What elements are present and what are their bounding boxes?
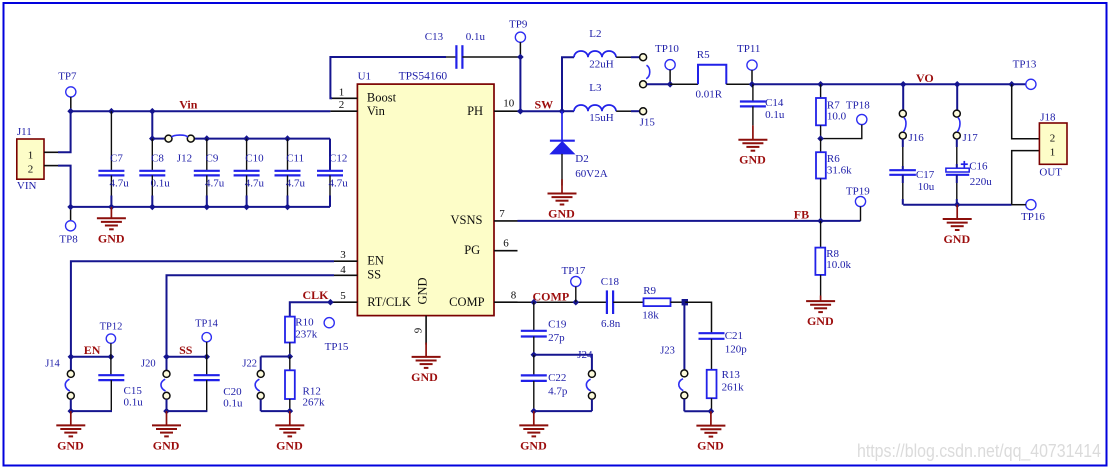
svg-text:15uH: 15uH xyxy=(589,112,614,124)
wire J23 bottom to R13 bottom xyxy=(684,410,711,412)
svg-text:60V2A: 60V2A xyxy=(575,168,607,180)
J11 pin 2 xyxy=(44,165,58,167)
jumper J14 xyxy=(45,357,74,411)
svg-text:4.7u: 4.7u xyxy=(329,177,349,189)
U1 pin 1 Boost xyxy=(330,87,357,99)
svg-text:J23: J23 xyxy=(660,346,675,357)
junction TP10 xyxy=(667,81,674,88)
svg-text:R13: R13 xyxy=(722,369,741,381)
wire R9 junction to J23 xyxy=(683,302,685,370)
jumper J15 xyxy=(640,108,656,129)
junction COMP TP17 xyxy=(573,299,580,306)
ground U1 pin 9 xyxy=(411,343,440,384)
svg-text:1: 1 xyxy=(1050,146,1056,158)
net label CLK xyxy=(303,288,330,302)
svg-text:C9: C9 xyxy=(206,152,219,164)
test point TP18 xyxy=(821,99,871,138)
junction bottom rail TP8 xyxy=(67,204,74,211)
svg-text:VSNS: VSNS xyxy=(451,213,483,227)
junction C19-C22 xyxy=(531,352,538,359)
U1 pin 5 RT/CLK xyxy=(330,290,357,302)
net label Vin xyxy=(179,97,198,111)
test point TP7 xyxy=(58,71,77,111)
svg-text:TP11: TP11 xyxy=(737,43,760,55)
wire J18 pin1 to ground rail xyxy=(1012,151,1040,205)
jumper J12 xyxy=(165,135,194,164)
wire CLK to R10 xyxy=(290,302,331,316)
svg-text:22uH: 22uH xyxy=(589,58,614,70)
svg-text:C18: C18 xyxy=(601,276,620,288)
svg-text:TP10: TP10 xyxy=(655,43,679,55)
jumper J17 xyxy=(953,84,978,144)
net label SW xyxy=(535,98,554,112)
capacitor C18 6.8n xyxy=(601,276,644,330)
svg-text:C16: C16 xyxy=(969,161,988,173)
svg-text:4.7u: 4.7u xyxy=(205,177,225,189)
svg-text:1: 1 xyxy=(339,87,345,99)
U1 pin 4 SS xyxy=(334,264,357,276)
svg-text:10u: 10u xyxy=(918,181,935,193)
resistor R10 237k xyxy=(285,317,318,357)
wire bottom input rail xyxy=(71,206,330,208)
junction SS bottom xyxy=(163,408,170,415)
svg-text:TP18: TP18 xyxy=(846,99,870,111)
svg-text:0.1u: 0.1u xyxy=(124,396,144,408)
svg-text:6: 6 xyxy=(503,238,509,250)
wire PH to SW node xyxy=(518,110,563,112)
U1 pin names xyxy=(367,91,485,310)
junction Vin rail at TP7 xyxy=(67,108,74,115)
svg-text:7: 7 xyxy=(499,208,505,220)
capacitor C9 xyxy=(194,139,225,207)
svg-text:0.1u: 0.1u xyxy=(466,31,486,43)
svg-text:27p: 27p xyxy=(548,332,565,344)
junction R10-R12 xyxy=(287,353,294,360)
junction R7-R6 xyxy=(817,135,824,142)
wire output ground rail xyxy=(903,204,1012,206)
capacitor C22 4.7p xyxy=(521,355,568,411)
junction J12 row C10 xyxy=(243,135,250,142)
svg-text:J16: J16 xyxy=(909,132,925,144)
connector J18 xyxy=(1039,111,1067,178)
resistor R8 10.0k xyxy=(815,221,851,296)
op-amp U1 TPS54160 body xyxy=(357,70,494,315)
junction R9 output xyxy=(682,299,688,305)
ground C14 xyxy=(738,125,767,166)
svg-text:PG: PG xyxy=(464,243,480,257)
junction R12 bottom xyxy=(287,408,294,415)
resistor R7 10.0 xyxy=(816,84,847,138)
capacitor C13 xyxy=(425,31,521,69)
svg-text:TP19: TP19 xyxy=(846,185,870,197)
U1 pin 3 EN xyxy=(334,249,357,261)
svg-text:261k: 261k xyxy=(722,382,745,394)
svg-text:C19: C19 xyxy=(548,319,567,331)
svg-text:TPS54160: TPS54160 xyxy=(399,70,448,82)
svg-text:GND: GND xyxy=(520,438,547,452)
capacitor C10 xyxy=(234,139,265,207)
junction bottom rail C7-GND xyxy=(108,204,115,211)
wire J11 pin1 to Vin rail xyxy=(58,111,71,152)
test point TP16 xyxy=(1012,200,1046,223)
svg-text:SS: SS xyxy=(367,267,381,281)
svg-text:C14: C14 xyxy=(765,97,784,109)
jumper after L2 xyxy=(640,54,650,88)
svg-text:GND: GND xyxy=(416,277,430,304)
svg-text:267k: 267k xyxy=(303,396,326,408)
test point TP12 xyxy=(100,322,123,357)
svg-text:TP8: TP8 xyxy=(59,233,78,245)
wire jumper to TP10 xyxy=(647,83,671,85)
svg-text:FB: FB xyxy=(794,207,809,221)
svg-text:J11: J11 xyxy=(17,126,32,138)
svg-text:GND: GND xyxy=(943,232,970,246)
svg-text:C13: C13 xyxy=(425,31,444,43)
test point TP8 xyxy=(59,207,78,245)
svg-text:6.8n: 6.8n xyxy=(601,318,621,330)
svg-text:J17: J17 xyxy=(963,132,979,144)
ground input rail xyxy=(97,207,126,245)
svg-text:EN: EN xyxy=(367,254,384,268)
wire VSNS to FB xyxy=(518,220,861,222)
svg-text:Vin: Vin xyxy=(179,97,198,111)
svg-text:R5: R5 xyxy=(697,49,710,61)
junction EN bottom xyxy=(68,408,75,415)
svg-text:C10: C10 xyxy=(245,152,264,164)
wire TP9 down to PH xyxy=(519,57,521,111)
wire R5 to TP11 xyxy=(726,83,752,85)
capacitor C16 220u polarized xyxy=(946,139,992,205)
resistor R9 18k xyxy=(642,285,685,321)
svg-text:GND: GND xyxy=(153,438,180,452)
resistor R5 0.01R shunt xyxy=(696,49,727,101)
net label VO xyxy=(916,71,934,85)
svg-text:GND: GND xyxy=(276,438,303,452)
junction SW at TP9 column xyxy=(517,108,524,115)
junction VO at J18 branch xyxy=(1008,81,1015,88)
jumper J20 xyxy=(141,357,170,411)
svg-text:L2: L2 xyxy=(589,28,601,40)
capacitor C14 xyxy=(740,84,785,125)
svg-text:9: 9 xyxy=(413,327,425,333)
svg-text:J12: J12 xyxy=(177,152,192,164)
ground EN xyxy=(56,411,85,452)
test point TP9 xyxy=(509,19,528,58)
svg-text:CLK: CLK xyxy=(303,288,330,302)
net label SS xyxy=(179,343,193,357)
svg-text:GND: GND xyxy=(57,438,84,452)
svg-text:C11: C11 xyxy=(286,152,304,164)
wire C19 node to J24 xyxy=(534,355,592,371)
junction EN node TP12 xyxy=(108,354,115,361)
svg-text:R10: R10 xyxy=(295,317,314,329)
svg-text:31.6k: 31.6k xyxy=(827,164,852,176)
wire EN node xyxy=(71,356,111,358)
wire TP10 to R5 xyxy=(670,83,698,85)
ground R13 xyxy=(696,411,725,452)
svg-text:J14: J14 xyxy=(45,359,60,370)
junction J12 row C11 xyxy=(284,135,291,142)
jumper J23 xyxy=(660,346,687,412)
test point TP10 xyxy=(655,43,679,84)
ground output rail xyxy=(943,205,972,246)
svg-text:4.7u: 4.7u xyxy=(110,177,130,189)
capacitor C17 10u xyxy=(889,139,935,205)
svg-text:237k: 237k xyxy=(295,329,318,341)
svg-text:EN: EN xyxy=(84,343,101,357)
svg-text:C21: C21 xyxy=(725,330,743,342)
wire J24 bottom to C22 bottom xyxy=(534,410,592,412)
net label EN xyxy=(84,343,101,357)
junction bottom rail C9 xyxy=(204,204,211,211)
J11 pin 1 xyxy=(44,151,58,153)
capacitor C19 27p xyxy=(521,302,567,355)
jumper J22 xyxy=(242,357,264,412)
wire C8 branch down xyxy=(151,111,153,138)
net label COMP xyxy=(533,290,570,304)
wire Vin rail xyxy=(71,110,331,112)
wire SS node xyxy=(167,356,207,358)
svg-text:TP15: TP15 xyxy=(325,341,349,353)
svg-text:GND: GND xyxy=(98,231,125,245)
svg-text:J22: J22 xyxy=(242,358,257,369)
jumper J16 xyxy=(899,84,924,144)
svg-text:120p: 120p xyxy=(725,343,748,355)
svg-text:TP9: TP9 xyxy=(509,19,528,31)
wire SW vertical to L2 xyxy=(562,57,574,111)
junction TP11 xyxy=(749,81,756,88)
svg-text:J15: J15 xyxy=(640,117,656,129)
jumper J24 xyxy=(577,349,595,411)
wire COMP to C18 xyxy=(518,301,607,303)
junction Vin rail C8 branch xyxy=(149,108,156,115)
wire VO rail xyxy=(752,83,1026,85)
capacitor C11 xyxy=(275,139,306,207)
svg-text:0.1u: 0.1u xyxy=(223,397,243,409)
junction bottom rail C8 xyxy=(149,204,156,211)
svg-text:R7: R7 xyxy=(827,99,840,111)
svg-text:L3: L3 xyxy=(589,82,602,94)
svg-text:SW: SW xyxy=(535,98,554,112)
svg-text:GND: GND xyxy=(411,370,438,384)
wire EN net xyxy=(71,261,334,357)
test point TP14 xyxy=(195,318,219,357)
U1 pin 9 GND xyxy=(413,316,427,345)
wire R9 to C21 xyxy=(685,302,712,333)
wire Boost loop xyxy=(330,57,446,98)
capacitor C12 xyxy=(317,152,348,207)
svg-text:8: 8 xyxy=(511,290,517,302)
svg-text:0.1u: 0.1u xyxy=(765,109,785,121)
junction output ground rail xyxy=(954,201,961,208)
svg-text:Vin: Vin xyxy=(367,104,386,118)
svg-text:4.7u: 4.7u xyxy=(245,177,265,189)
svg-text:TP14: TP14 xyxy=(195,318,219,329)
svg-text:5: 5 xyxy=(340,290,346,302)
svg-text:2: 2 xyxy=(1050,132,1056,144)
junction bottom rail C11 xyxy=(284,204,291,211)
svg-text:TP16: TP16 xyxy=(1021,211,1045,223)
junction VO at J16 xyxy=(900,81,907,88)
svg-text:J18: J18 xyxy=(1040,111,1056,123)
svg-text:R6: R6 xyxy=(827,153,840,165)
svg-text:4: 4 xyxy=(340,264,346,276)
capacitor C21 120p xyxy=(699,330,748,370)
wire J22 bottom to R12 bottom xyxy=(261,410,290,412)
junction VO at R7 xyxy=(817,81,824,88)
svg-text:VIN: VIN xyxy=(17,180,37,192)
svg-text:C22: C22 xyxy=(548,372,566,384)
svg-text:4.7u: 4.7u xyxy=(286,177,306,189)
capacitor C7 xyxy=(98,111,129,207)
ground SS xyxy=(152,411,181,452)
svg-text:0.1u: 0.1u xyxy=(151,177,171,189)
svg-text:D2: D2 xyxy=(575,153,588,165)
svg-text:U1: U1 xyxy=(358,70,371,82)
junction Vin rail C7 xyxy=(108,108,115,115)
svg-text:Boost: Boost xyxy=(367,91,397,105)
wire J12 row xyxy=(152,139,330,171)
svg-text:GND: GND xyxy=(739,153,766,167)
svg-text:0.01R: 0.01R xyxy=(696,89,723,101)
test point TP19 xyxy=(846,185,870,221)
test point TP15 xyxy=(324,318,349,354)
svg-text:GND: GND xyxy=(697,439,724,453)
svg-text:RT/CLK: RT/CLK xyxy=(367,295,411,309)
svg-text:4.7p: 4.7p xyxy=(548,385,568,397)
capacitor C20 0.1u xyxy=(167,357,244,411)
svg-text:TP17: TP17 xyxy=(562,265,586,277)
wire J11 pin2 to bottom rail xyxy=(58,166,71,207)
resistor R6 31.6k xyxy=(816,139,852,221)
inductor L3 15uH xyxy=(562,82,639,124)
connector J11 xyxy=(17,126,44,192)
U1 pin 7 VSNS xyxy=(494,208,518,221)
svg-text:18k: 18k xyxy=(642,310,659,322)
svg-text:VO: VO xyxy=(916,71,934,85)
junction SW node xyxy=(559,108,566,115)
test point TP13 xyxy=(1013,59,1037,90)
U1 pin 2 Vin xyxy=(330,99,357,111)
junction VO at J17 xyxy=(954,81,961,88)
junction FB xyxy=(817,218,824,225)
svg-text:TP7: TP7 xyxy=(58,71,77,83)
svg-text:GND: GND xyxy=(807,314,834,328)
svg-text:TP12: TP12 xyxy=(100,322,123,333)
watermark xyxy=(857,440,1101,462)
svg-text:C20: C20 xyxy=(223,386,242,398)
svg-text:2: 2 xyxy=(28,164,34,176)
resistor R13 261k xyxy=(707,369,744,411)
svg-text:TP13: TP13 xyxy=(1013,59,1037,71)
svg-text:10: 10 xyxy=(503,98,515,110)
junction EN node left xyxy=(68,354,75,361)
svg-text:C7: C7 xyxy=(110,152,123,164)
svg-text:C8: C8 xyxy=(151,152,164,164)
junction SS node left xyxy=(163,354,170,361)
capacitor C8 xyxy=(139,139,170,207)
diode D2 60V2A xyxy=(550,111,608,185)
wire R10 node to J22 xyxy=(261,356,290,358)
test point TP11 xyxy=(737,43,760,84)
wire VO to J18 pin2 xyxy=(1012,84,1040,138)
test point TP17 xyxy=(562,265,586,302)
svg-text:PH: PH xyxy=(467,104,483,118)
wire SS net xyxy=(167,275,335,357)
svg-text:220u: 220u xyxy=(970,176,993,188)
U1 pin 10 PH xyxy=(494,98,518,112)
svg-text:J20: J20 xyxy=(141,358,156,369)
svg-text:COMP: COMP xyxy=(449,295,484,309)
svg-text:10.0: 10.0 xyxy=(827,111,847,123)
junction C22 bottom xyxy=(531,408,538,415)
ground D2 xyxy=(548,179,577,220)
junction COMP C19 xyxy=(531,299,538,306)
ground R12 xyxy=(275,411,304,452)
junction C13-TP9 xyxy=(517,54,524,61)
U1 pin 8 COMP xyxy=(494,290,518,303)
svg-text:3: 3 xyxy=(340,249,346,261)
ground R8 xyxy=(806,296,835,329)
junction CLK xyxy=(327,299,334,306)
ground C22 xyxy=(519,411,548,452)
svg-text:C15: C15 xyxy=(124,385,143,397)
junction bottom rail C10 xyxy=(243,204,250,211)
junction J12 row C9 xyxy=(204,135,211,142)
net label FB xyxy=(794,207,809,221)
svg-text:1: 1 xyxy=(28,150,34,162)
svg-text:SS: SS xyxy=(179,343,193,357)
junction J12 row left xyxy=(149,135,156,142)
svg-text:2: 2 xyxy=(339,99,345,111)
svg-text:J24: J24 xyxy=(577,349,593,361)
svg-text:C17: C17 xyxy=(916,169,935,181)
svg-text:R9: R9 xyxy=(643,285,656,297)
U1 pin 6 PG stub xyxy=(494,238,518,251)
junction R13 bottom xyxy=(708,408,715,415)
junction SS node TP14 xyxy=(203,354,210,361)
resistor R12 267k xyxy=(285,357,325,412)
svg-text:10.0k: 10.0k xyxy=(826,259,851,271)
svg-text:C12: C12 xyxy=(329,152,347,164)
svg-text:GND: GND xyxy=(548,207,575,221)
capacitor C15 0.1u xyxy=(71,357,143,411)
inductor L2 22uH xyxy=(574,28,640,70)
svg-text:OUT: OUT xyxy=(1039,166,1062,178)
svg-text:https://blog.csdn.net/qq_40731: https://blog.csdn.net/qq_40731414 xyxy=(857,440,1101,462)
